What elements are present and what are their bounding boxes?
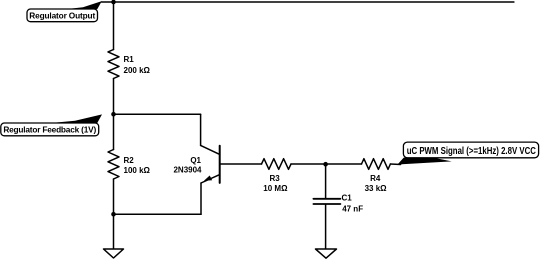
- svg-text:100 kΩ: 100 kΩ: [124, 166, 151, 175]
- svg-text:200 kΩ: 200 kΩ: [124, 66, 151, 75]
- svg-text:Q1: Q1: [190, 156, 201, 165]
- svg-text:uC PWM Signal (>=1kHz) 2.8V VC: uC PWM Signal (>=1kHz) 2.8V VCC: [407, 145, 537, 156]
- svg-text:Regulator Feedback (1V): Regulator Feedback (1V): [3, 124, 96, 134]
- svg-text:R1: R1: [124, 55, 135, 64]
- svg-text:R2: R2: [124, 156, 135, 165]
- svg-text:C1: C1: [342, 193, 353, 202]
- svg-text:R4: R4: [370, 174, 381, 183]
- svg-text:33 kΩ: 33 kΩ: [365, 184, 388, 193]
- svg-text:R3: R3: [269, 174, 280, 183]
- svg-text:10 MΩ: 10 MΩ: [263, 184, 288, 193]
- svg-text:2N3904: 2N3904: [173, 165, 202, 174]
- svg-text:47 nF: 47 nF: [342, 205, 363, 214]
- svg-text:Regulator Output: Regulator Output: [29, 11, 95, 21]
